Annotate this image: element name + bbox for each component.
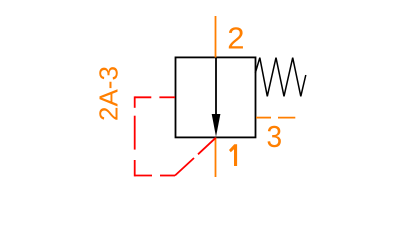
svg-text:3: 3 [267, 119, 283, 154]
valve body (square) [176, 57, 256, 137]
flow arrow shaft [215, 57, 217, 116]
port 3 dashed line (orange) [256, 117, 271, 119]
centerline port 2 (top, orange) [215, 16, 217, 58]
spring [255, 58, 305, 97]
flow arrowhead [212, 114, 221, 137]
svg-text:2A-3: 2A-3 [93, 66, 123, 121]
pilot line horizontal bottom dash segments (red) [135, 175, 152, 177]
centerline port 1 (bottom, orange) [215, 138, 217, 178]
pilot line vertical dash segments (red) [134, 96, 136, 107]
svg-text:2: 2 [227, 21, 244, 56]
pilot line diagonal dash segments (red) [175, 158, 194, 176]
port 1 label [229, 144, 237, 166]
pilot line horizontal top dash segments (red) [135, 96, 151, 98]
